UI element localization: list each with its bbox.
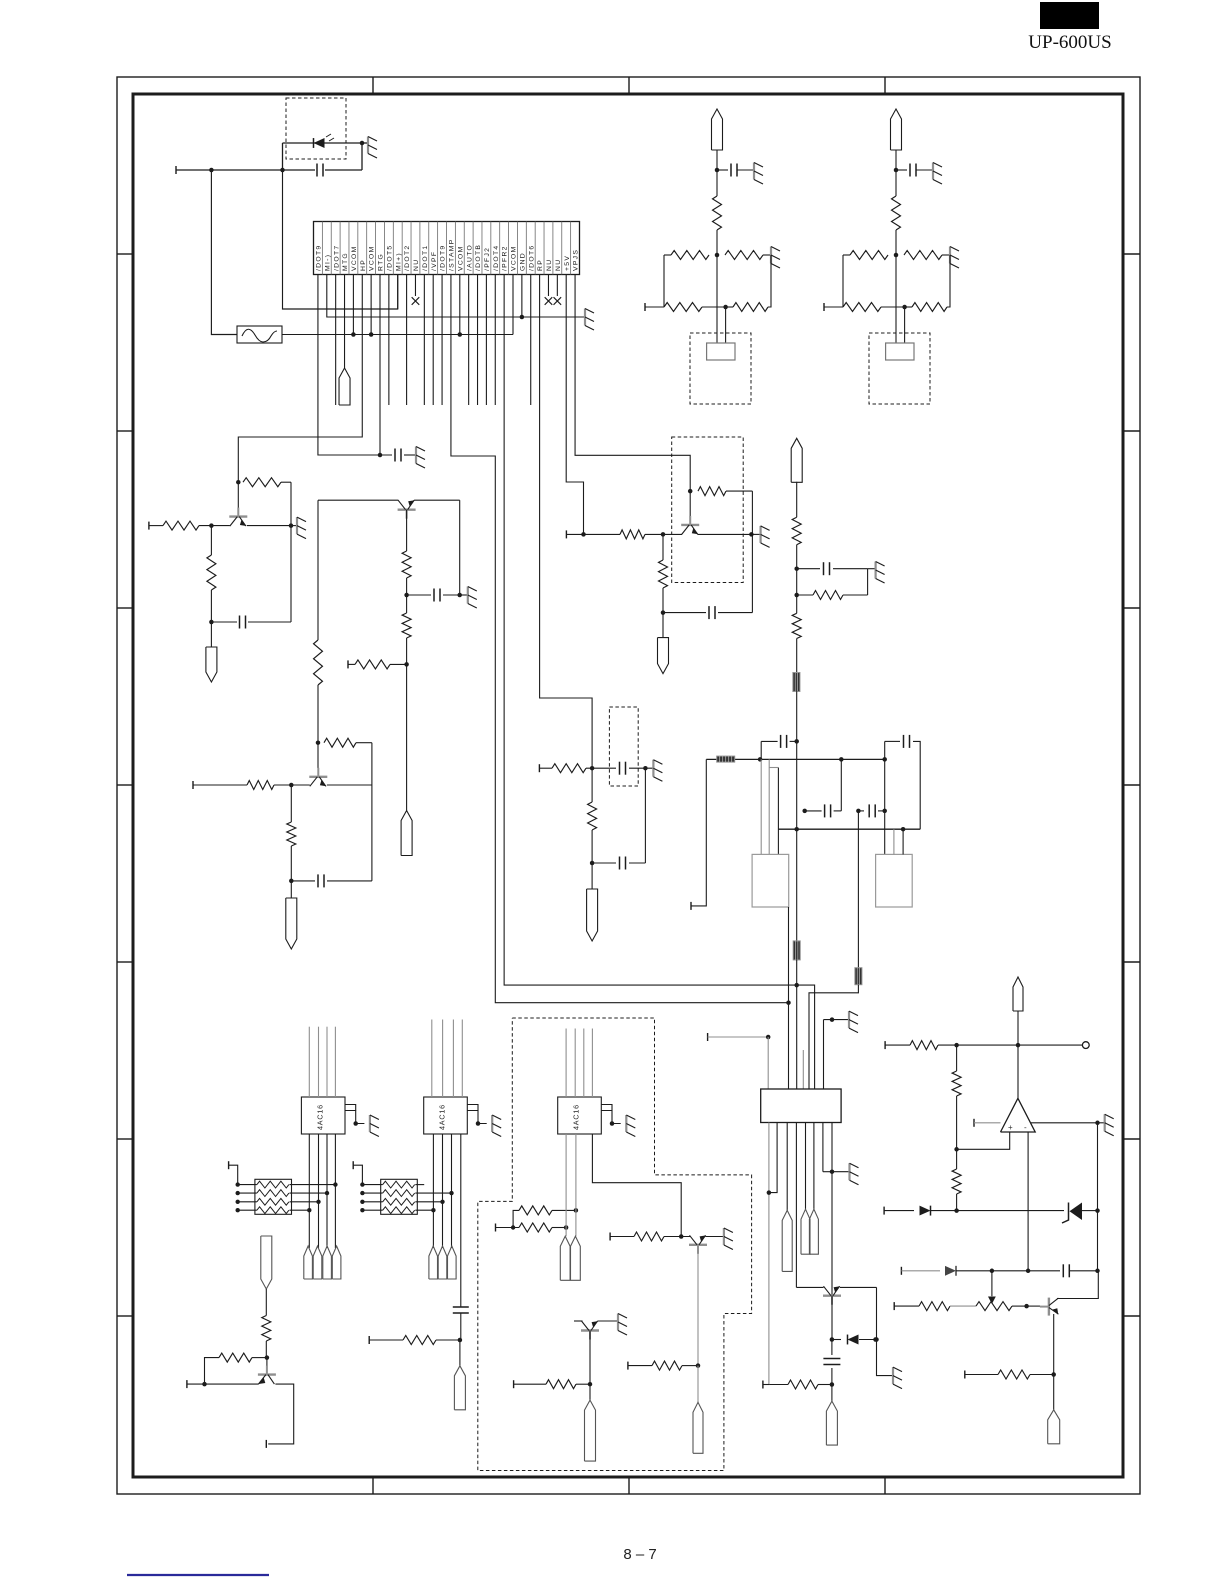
svg-text:-: - — [1024, 1123, 1027, 1132]
wire 876 chain — [877, 1287, 894, 1375]
IC U2 bottom pin wires — [432, 1134, 434, 1248]
junction — [901, 827, 906, 832]
wire emitter Q10 loop — [268, 1384, 294, 1444]
svg-text:/DOT6: /DOT6 — [528, 244, 535, 271]
IC U1 bottom pin wires — [308, 1134, 310, 1248]
trimmer row — [893, 1302, 895, 1310]
junction — [404, 662, 409, 667]
transistor Q10 — [266, 1358, 268, 1375]
svg-text:VCOM: VCOM — [511, 245, 518, 271]
pin 7 VCOM wire — [370, 275, 372, 335]
terminal T-Q4 — [565, 530, 567, 538]
junction collector — [688, 489, 693, 494]
transformer primary wires — [760, 759, 762, 854]
network resistor — [383, 1207, 415, 1214]
resistor R-op1 — [910, 1041, 938, 1050]
capacitor C-Q3 — [407, 594, 431, 596]
wire base Q1 — [149, 525, 163, 527]
svg-text:RP: RP — [537, 259, 544, 271]
wire — [760, 741, 762, 759]
chassis ground — [753, 163, 755, 180]
junction — [590, 766, 595, 771]
wire hybrid gnd pin 2 — [822, 1123, 824, 1172]
resistor R-Q2 top — [314, 640, 323, 685]
junction — [1026, 1269, 1031, 1274]
IC side tab — [467, 1105, 478, 1111]
diode D-Q9 — [832, 1339, 841, 1341]
terminal T-opamp-in — [884, 1041, 886, 1049]
op-amp U4 — [1001, 1098, 1036, 1132]
wire down to flag — [406, 664, 408, 810]
svg-text:/PFJ2: /PFJ2 — [484, 247, 491, 271]
junction — [794, 593, 799, 598]
wire — [957, 1210, 1064, 1212]
chassis ground G-IC — [369, 1115, 371, 1132]
chassis ground G2 — [584, 309, 586, 326]
junction — [839, 757, 844, 762]
wire — [895, 230, 897, 255]
zone tick marks right — [1123, 253, 1140, 255]
svg-text:VCOM: VCOM — [457, 245, 464, 271]
resistor R-op3 — [956, 1149, 958, 1169]
ground row bottom — [831, 1123, 833, 1172]
junction — [404, 593, 409, 598]
junction — [679, 1234, 684, 1239]
junction — [954, 1208, 959, 1213]
pot wiper wire — [991, 1271, 993, 1296]
capacitor C-C5d — [858, 810, 864, 812]
svg-text:4AC16: 4AC16 — [438, 1104, 447, 1130]
junction — [767, 1190, 772, 1195]
wire hybrid to Q9 base — [795, 1123, 797, 1288]
svg-text:HP: HP — [360, 259, 367, 271]
junction — [882, 757, 887, 762]
junction — [458, 1338, 463, 1343]
junction — [202, 1382, 207, 1387]
bus wire — [796, 482, 798, 517]
pin stubs (unused connector pins) — [335, 275, 337, 406]
junction — [588, 1382, 593, 1387]
zener big D-op2 — [1070, 1203, 1083, 1221]
transistor Q3 — [398, 500, 416, 519]
resistor R-C5b parallel — [797, 594, 813, 596]
capacitor C-C5a — [797, 568, 820, 570]
flag Q3 — [401, 811, 412, 856]
wire bus into hybrid — [796, 960, 798, 1089]
chassis ground G-RP — [652, 760, 654, 777]
resistor R-Q10 feedback — [252, 1357, 267, 1359]
wire right — [415, 1201, 442, 1203]
resistor R-Q1 lower — [210, 526, 212, 555]
pin 29 +5V wire to Q4 base — [566, 275, 583, 535]
svg-text:/AUTO: /AUTO — [466, 244, 473, 271]
junction — [289, 783, 294, 788]
junction — [794, 983, 799, 988]
wire emitter Q1 — [247, 525, 291, 527]
resistor Rb — [496, 1227, 520, 1229]
wire — [885, 1044, 910, 1046]
flag Q6b — [585, 1400, 596, 1461]
resistor left bottom — [843, 303, 881, 312]
junction — [758, 757, 763, 762]
wire MI+ to cap node — [283, 170, 398, 309]
pin 1 /DOT9 wire to C-R filter — [318, 275, 392, 456]
resistor R-Q2 feedback — [324, 738, 356, 747]
wire emitter Q2 — [327, 784, 372, 786]
terminal T-RP — [538, 764, 540, 772]
junction — [766, 1035, 771, 1040]
wire emitter to ground — [706, 1236, 724, 1238]
wire collector loop — [751, 491, 753, 612]
wire left — [238, 1184, 257, 1186]
wire base Q2 — [193, 784, 247, 786]
diode D1 — [314, 138, 325, 148]
terminal T-Q10 — [186, 1380, 188, 1388]
resistor left bottom — [664, 303, 702, 312]
wire collector down — [697, 1245, 699, 1366]
resistor R-RP2 vertical — [591, 768, 593, 802]
junction — [581, 532, 586, 537]
network resistor — [383, 1181, 415, 1188]
terminal T-Q10b — [265, 1440, 267, 1448]
T2 feed wires — [893, 829, 895, 854]
junction — [590, 861, 595, 866]
pin 16 /STAMP long wire — [451, 275, 789, 1003]
wire left — [362, 1209, 382, 1211]
svg-text:/DOT7: /DOT7 — [333, 244, 340, 271]
IC 4AC16 body — [424, 1097, 468, 1134]
IC side tab — [345, 1105, 356, 1111]
junction — [794, 566, 799, 571]
junction — [1051, 1372, 1056, 1377]
flag Q9 — [826, 1401, 837, 1445]
junction — [265, 1355, 270, 1360]
IC side tab — [601, 1105, 612, 1111]
wire right loop — [768, 255, 771, 307]
flag connector — [712, 109, 723, 150]
wire collector top Q3 — [318, 499, 398, 501]
dashed box Q4 — [672, 437, 744, 583]
flag connector — [891, 109, 902, 150]
wire to flag Q11 — [1053, 1375, 1055, 1410]
connector CN1 slot dividers — [321, 222, 323, 275]
junction — [990, 1269, 995, 1274]
terminal — [823, 303, 825, 311]
junction — [954, 1147, 959, 1152]
svg-text:MTG: MTG — [342, 252, 349, 271]
resistor R-Q1 feedback — [243, 478, 281, 487]
resistor R-Q2 base — [247, 781, 274, 790]
driver flags — [560, 1236, 570, 1280]
wire pin4 U2 — [460, 1134, 462, 1307]
diode D-op3 — [945, 1266, 956, 1276]
terminal — [352, 1161, 354, 1169]
wire left — [362, 1184, 382, 1186]
head element box — [886, 343, 914, 360]
transformer secondary wire to hybrid — [788, 907, 790, 1089]
transistor Q11 — [1040, 1298, 1059, 1316]
wire to flag — [210, 622, 212, 647]
hybrid IC box HIC1 — [761, 1089, 841, 1123]
resistor R-Q1 base — [163, 521, 199, 530]
junction — [1095, 1269, 1100, 1274]
IC 4AC16 body — [558, 1097, 602, 1134]
junction — [661, 610, 666, 615]
junction — [894, 168, 899, 173]
wire to head element — [895, 255, 897, 343]
dashed box around diode D1 — [286, 98, 346, 159]
svg-text:GND: GND — [519, 252, 526, 271]
flag Q2 output — [286, 898, 297, 949]
resistor R-Q3 upper — [406, 510, 408, 551]
opamp output right wire — [1031, 1122, 1098, 1124]
wire to flag — [290, 881, 292, 898]
resistor left top — [664, 254, 671, 256]
junction — [902, 305, 907, 310]
junction — [574, 1208, 579, 1213]
chassis ground G-IC — [625, 1115, 627, 1132]
junction GND pin — [520, 315, 525, 320]
resistor right bottom — [912, 303, 947, 312]
wire Q9 emitter right — [840, 1286, 877, 1288]
svg-text:/PFR2: /PFR2 — [502, 245, 509, 271]
power rail — [706, 758, 884, 760]
junction — [786, 1000, 791, 1005]
pin 2 MI- ground wire — [327, 275, 585, 318]
outer border frame — [117, 77, 1140, 1494]
junction — [830, 1382, 835, 1387]
wire 884 leg — [884, 759, 886, 854]
junction — [882, 809, 887, 814]
terminal T-Q3 — [347, 660, 349, 668]
wire gnd chain to Q9 — [831, 1172, 833, 1296]
wire tab to ground — [612, 1111, 621, 1124]
capacitor C-Q9 — [831, 1340, 833, 1356]
resistor R-RP — [539, 767, 552, 769]
wire from Q3 collector line — [317, 500, 319, 640]
flag Q11 — [1048, 1410, 1060, 1444]
network resistor — [383, 1190, 415, 1197]
terminal T-Q2 — [192, 781, 194, 789]
pin 4 MTG wire — [344, 275, 346, 369]
chassis ground G-C5 — [868, 568, 876, 570]
terminal T-hybrid — [707, 1033, 709, 1041]
chassis ground G-H2 — [848, 1163, 850, 1180]
resistor R-Q4 emitter lower — [662, 534, 664, 560]
transistor Q1 — [237, 482, 239, 508]
ground row top — [830, 1017, 835, 1022]
junction — [280, 168, 285, 173]
wire right — [290, 1184, 336, 1186]
IC U3 top pin wires — [565, 1029, 567, 1098]
svg-text:/DOT2: /DOT2 — [404, 244, 411, 271]
pin 5 VCOM wire — [352, 275, 354, 335]
bead FB3 — [793, 941, 800, 960]
hybrid stub pin — [802, 1050, 804, 1089]
junction — [802, 809, 807, 814]
wire — [716, 230, 718, 255]
wire 858 branch — [857, 811, 859, 968]
diode row 1 — [883, 1207, 885, 1215]
pin 22 /PFR2 long wire — [504, 275, 814, 1090]
resistor R-Q6b — [514, 1383, 546, 1385]
pin 10 MI+ wire — [397, 275, 399, 310]
wire right — [415, 1184, 424, 1186]
zone tick marks left — [117, 253, 133, 255]
terminal T-Q6a — [609, 1233, 611, 1241]
junction — [856, 809, 861, 814]
sine filter FL1 — [237, 326, 282, 343]
network resistor — [257, 1190, 289, 1197]
chassis ground — [932, 163, 934, 180]
junction — [643, 766, 648, 771]
pin 21 stub — [494, 275, 496, 406]
wire base to Q4 — [663, 533, 682, 535]
svg-text:MI+): MI+) — [395, 252, 402, 271]
flag H1 — [782, 1210, 792, 1271]
diode D-op1 — [920, 1206, 931, 1216]
dashed boundary driver section — [478, 1018, 752, 1471]
pin 28 NU no-connect — [556, 275, 558, 297]
resistor R-Q3 lower — [406, 595, 408, 613]
chassis ground G-op — [1098, 1122, 1105, 1124]
flag Q1 output — [206, 647, 217, 682]
rail2 wire — [778, 828, 920, 830]
junction — [209, 168, 214, 173]
wire to flag — [591, 863, 593, 889]
resistor Ra — [513, 1210, 519, 1227]
wire to head element — [716, 255, 718, 343]
svg-text:/STAMP: /STAMP — [449, 238, 456, 271]
wire base Q10 — [205, 1383, 259, 1385]
wire to Q11 — [1027, 1305, 1040, 1307]
network resistor — [257, 1198, 289, 1205]
junction — [316, 740, 321, 745]
flag Q4 — [658, 638, 669, 674]
transistor Q4 — [689, 491, 691, 518]
pin 6 HP wire to Q1 — [238, 275, 362, 483]
flag VH input — [791, 438, 802, 482]
IC U1 output flags — [304, 1246, 313, 1279]
resistor R-tr1 — [919, 1302, 950, 1311]
chassis ground G-Q4 — [751, 533, 760, 535]
transformer T1 box — [752, 854, 789, 907]
svg-text:4AC16: 4AC16 — [315, 1104, 324, 1130]
resistor right top — [904, 251, 942, 260]
transformer T2 box — [876, 854, 913, 907]
wire right — [415, 1192, 451, 1194]
wire feedback loop — [290, 482, 292, 525]
svg-text:+: + — [1008, 1123, 1013, 1132]
IC U2 output flags — [429, 1246, 438, 1279]
svg-text:VCOM: VCOM — [351, 245, 358, 271]
network common wire — [229, 1165, 238, 1184]
opamp left stub — [973, 1119, 975, 1127]
wire op feedback — [1097, 1123, 1099, 1271]
IC U1 top pin wires — [308, 1027, 310, 1097]
connector CN1 body — [314, 222, 580, 275]
pin 23 VCOM wire — [512, 275, 514, 335]
resistor right top — [725, 251, 763, 260]
resistor R-Q10 top — [262, 1316, 271, 1342]
terminal — [228, 1161, 230, 1169]
wire to flag Q9 — [831, 1385, 833, 1402]
capacitor C-Q2 — [291, 880, 315, 882]
capacitor C1a — [283, 169, 316, 171]
chassis ground G-Q6b — [617, 1314, 619, 1331]
IC U2 top pin wires — [431, 1020, 433, 1098]
wire collector right Q3 — [414, 499, 460, 501]
bus wire below rail2 — [796, 829, 798, 941]
wire U3 pin4 to Q6a — [592, 1134, 681, 1237]
svg-text:NU: NU — [413, 259, 420, 271]
pin 12 NU no-connect — [414, 275, 416, 297]
VCOM bus wire — [282, 334, 513, 336]
junction — [661, 532, 666, 537]
wire right loop — [644, 768, 646, 863]
transistor Q2 — [317, 743, 319, 768]
bead FB4 — [855, 968, 862, 985]
pin 24 GND wire — [521, 275, 523, 318]
ferrite bead FB1 — [793, 673, 800, 692]
wire to flag — [459, 1340, 461, 1366]
resistor right bottom — [733, 303, 768, 312]
capacitor C-RP2 — [629, 862, 645, 864]
wire left — [238, 1192, 257, 1194]
wire hybrid out 1 — [768, 1123, 770, 1385]
junction — [794, 739, 799, 744]
resistor vertical — [713, 196, 722, 230]
terminal T-Q9 — [762, 1381, 764, 1389]
chassis ground G-Q3 — [460, 594, 468, 596]
chassis ground — [949, 247, 951, 264]
rail left leg to terminal — [691, 759, 706, 906]
flag C3c — [454, 1366, 465, 1410]
svg-text:/DOT1: /DOT1 — [422, 244, 429, 271]
flag Q6a — [693, 1402, 703, 1453]
resistor R-Q3 base — [348, 663, 355, 665]
wire hybrid out 2 — [769, 1123, 777, 1193]
capacitor — [896, 169, 907, 171]
svg-text:/DOT9: /DOT9 — [316, 244, 323, 271]
resistor left top — [843, 254, 850, 256]
network common wire — [353, 1165, 362, 1184]
wire left loop — [842, 255, 844, 307]
svg-text:+5V: +5V — [564, 255, 571, 271]
bus wire down — [796, 691, 798, 829]
resistor R-Q6a — [610, 1236, 634, 1238]
capacitor C2a — [394, 449, 396, 462]
wire to flag Q6b — [589, 1384, 591, 1400]
resistor R-op2 — [956, 1045, 958, 1071]
wire emitter Q6b to ground — [598, 1320, 619, 1322]
IC 4AC16 body — [301, 1097, 345, 1134]
svg-text:VCOM: VCOM — [369, 245, 376, 271]
resistor R-C5a — [792, 517, 801, 545]
transistor Q9 — [823, 1286, 841, 1305]
junction — [1024, 1304, 1029, 1309]
open terminal — [1082, 1042, 1089, 1049]
wire Q11 top — [1057, 1271, 1098, 1299]
junction — [794, 827, 799, 832]
wire Q9 collector chain — [831, 1296, 833, 1340]
row 2 diode cap — [900, 1267, 902, 1275]
resistor R-C3c — [403, 1336, 436, 1345]
capacitor C-U2pin4 — [453, 1306, 469, 1308]
junction — [1016, 1043, 1021, 1048]
svg-text:4AC16: 4AC16 — [572, 1104, 581, 1130]
junction — [696, 1363, 701, 1368]
